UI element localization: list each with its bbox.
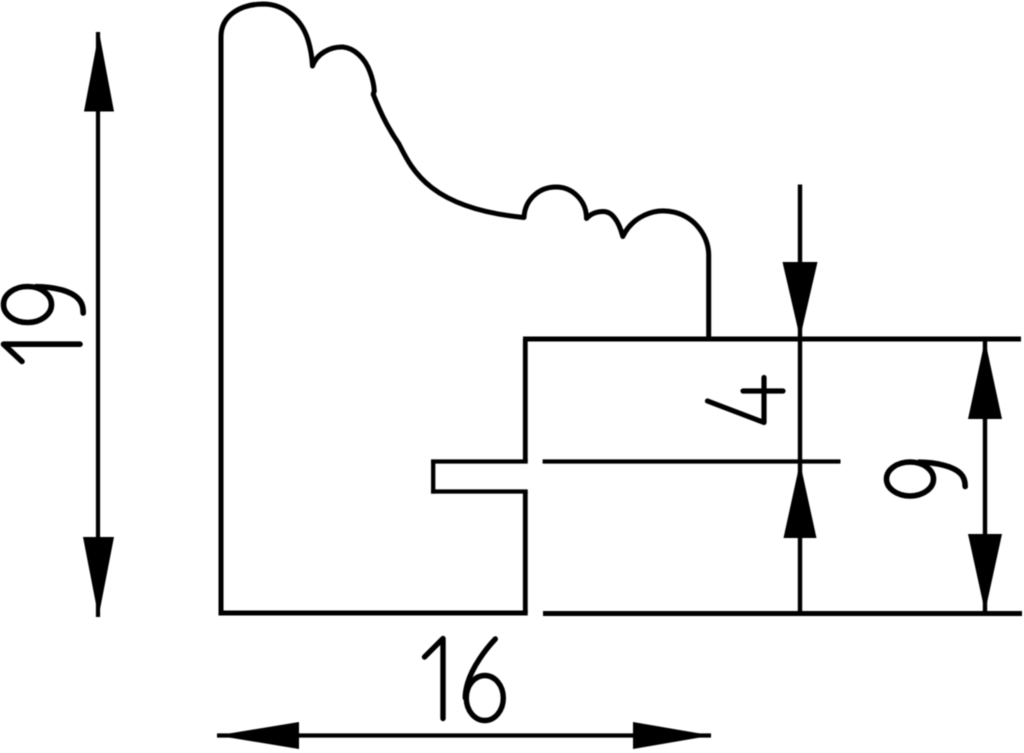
label 16 (single-stroke digits) xyxy=(425,639,504,721)
slot bottom edge xyxy=(431,489,528,493)
arrowhead 16 left xyxy=(217,722,299,749)
extension line at slot level (for dim 4) xyxy=(543,459,841,463)
arrowhead 4 down (above rabbet top line) xyxy=(783,262,818,338)
dimension line 4 (vertical at x=800) xyxy=(798,185,802,614)
label 19 (rotated, single-stroke digits) xyxy=(4,287,84,362)
rabbet vertical face upper segment xyxy=(523,339,528,462)
arrowhead 9 up xyxy=(968,340,1002,419)
arrowhead 19 up xyxy=(84,32,114,112)
rabbet vertical face lower segment xyxy=(523,492,528,614)
bottom edge of profile (left block) xyxy=(219,611,528,616)
arrowhead 19 down xyxy=(83,537,114,617)
slot top edge xyxy=(431,459,528,463)
rabbet top surface line extended right xyxy=(523,337,1021,342)
dimension line 16 (horizontal bottom) xyxy=(217,733,711,737)
arrowhead 9 down xyxy=(968,534,1002,612)
bottom edge extended right (for dim 9) xyxy=(543,611,1022,616)
label 4 (rotated, single-stroke digit) xyxy=(708,378,784,423)
arrowhead 4 up (below slot line) xyxy=(784,463,817,539)
slot left edge xyxy=(431,460,435,494)
moulding profile outline: left edge, scalloped top, right edge xyxy=(221,4,709,616)
dimension line 9 (vertical at x=985) xyxy=(983,340,987,612)
label 9 (rotated, single-stroke digit) xyxy=(887,462,966,496)
arrowhead 16 right xyxy=(633,722,712,749)
dimension line 19 (left vertical) xyxy=(96,32,100,617)
